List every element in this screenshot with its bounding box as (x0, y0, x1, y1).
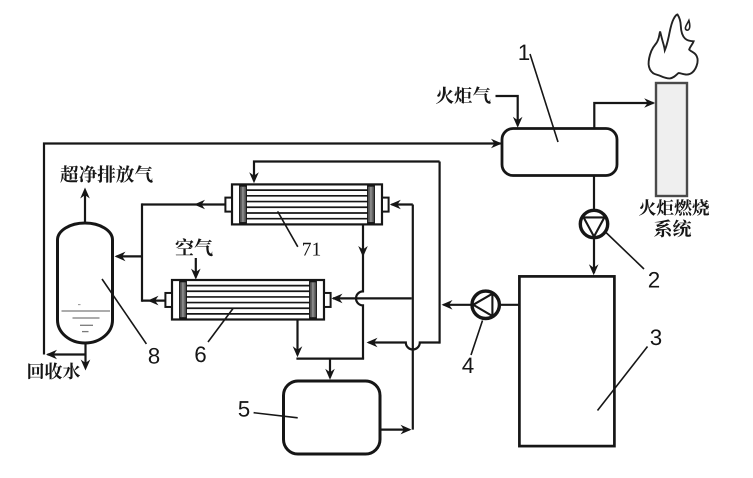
wire pump 4 outlet arrow left (442, 300, 472, 310)
leader line for label 5 (254, 413, 298, 418)
wire feed into box 5 top (325, 359, 335, 380)
label air (kongqi) (176, 238, 213, 256)
wire separator 8 top vent arrow up (80, 188, 90, 225)
leader line for label 4 (471, 321, 483, 356)
wire branch from drain to recycle loop corner (46, 350, 86, 360)
label 1 (vessel 1) (519, 45, 529, 60)
wire air feed arrow into module 6 top (191, 258, 201, 280)
leader line for label 6 (208, 309, 233, 343)
wire flare gas feed down into vessel 1 (496, 96, 523, 128)
membrane module 6 (165, 280, 330, 320)
wire inlet into separator 8 right side (115, 252, 143, 262)
wire vessel 1 to flare stack (594, 98, 655, 129)
wire inlet into module 6 right nozzle (332, 294, 412, 304)
box 5 (regeneration unit) (284, 381, 381, 454)
wire module 6 left outlet to riser (142, 296, 165, 306)
label 5 (box 5) (239, 401, 250, 417)
wire junction riser x=142 between module outlets (141, 203, 143, 301)
liquid level marks in separator 8 (62, 305, 111, 332)
label ultra-clean discharge gas (60, 165, 152, 183)
wire recycle loop from separator 8 bottom to vessel 1 inlet (44, 139, 502, 355)
wire riser x=439.6 from pump 4 up to module 71 top feed (439, 162, 441, 344)
separator 8 (water knockout vessel) (58, 223, 113, 343)
label recovered water (28, 363, 80, 380)
label 6 (module 6) (195, 346, 205, 362)
leader line for label 71 (278, 211, 298, 246)
wire pump 2 to tank 3 top arrow down (589, 237, 599, 275)
label 2 (pump 2) (649, 272, 659, 288)
tank 3 (absorption column) (519, 276, 614, 446)
label 8 (separator 8) (149, 348, 159, 364)
leader line for label 2 (606, 233, 644, 270)
pump 2 (circle with down triangle) (580, 210, 607, 237)
wire inlet into module 71 right nozzle (390, 200, 413, 210)
pump 4 (circle with left triangle) (472, 291, 499, 318)
wire module 6 bottom outlet arrow down (293, 319, 303, 358)
membrane module 71 (225, 184, 388, 224)
wire collector horizontal below module 6 (296, 358, 364, 360)
leader line for label 3 (598, 347, 648, 411)
wire module 71 left outlet to riser (142, 200, 226, 210)
wire module 71 bottom outlet with hop over module-6 inlet line (356, 223, 368, 358)
leader line for label 1 (530, 54, 558, 142)
leader line for label 8 (102, 279, 146, 344)
vessel 1 (flare gas buffer drum) (502, 129, 617, 176)
wire separator 8 bottom drain with arrow down (recovered water) (81, 342, 91, 371)
wire box 5 outlet arrow right (380, 425, 412, 435)
wire feed into module 71 top (249, 162, 439, 184)
wire cross line from riser x=439.6 with hop over riser x=412.8 (367, 338, 440, 350)
flare stack (656, 83, 687, 196)
flame above flare stack (649, 15, 698, 79)
label system (xitong) (654, 219, 691, 237)
label flare gas (huojuqi) (436, 86, 491, 103)
label 4 (pump 4) (462, 358, 473, 373)
wire vessel 1 bottom to pump 2 (593, 175, 595, 212)
label flare combustion (639, 199, 709, 216)
label 3 (tank 3) (651, 329, 662, 345)
label 71 (module 71) (303, 243, 320, 256)
wire riser x=412.8 from box 5 outlet up to module 71 right inlet (412, 205, 414, 430)
wire pump 4 inlet from tank 3 (500, 304, 519, 306)
